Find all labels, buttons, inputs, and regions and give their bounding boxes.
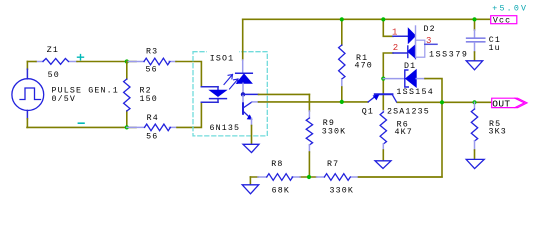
svg-text:D1: D1	[404, 62, 416, 71]
svg-text:+5.0V: +5.0V	[492, 4, 528, 13]
svg-text:6N135: 6N135	[210, 124, 241, 133]
wire D1 right down to OUT net	[359, 79, 443, 177]
node D1 left junction	[381, 77, 385, 81]
node junction R9 bottom	[307, 175, 311, 179]
wire bottom-left net	[27, 126, 136, 128]
node + marker	[78, 55, 84, 60]
ground below C1	[466, 61, 483, 70]
bottom net wire	[250, 176, 442, 178]
node junction A top	[125, 59, 129, 63]
resistor R9	[306, 94, 346, 177]
svg-text:470: 470	[355, 61, 373, 70]
resistor R1	[339, 19, 373, 102]
node C1 top	[472, 17, 476, 21]
resistor R6	[380, 111, 413, 161]
svg-text:2: 2	[393, 43, 398, 53]
svg-text:330K: 330K	[322, 127, 347, 136]
resistor R8	[258, 160, 300, 196]
svg-text:3K3: 3K3	[489, 128, 507, 137]
svg-text:R7: R7	[327, 160, 339, 169]
svg-text:50: 50	[48, 71, 60, 80]
wire D2 pin1 drop	[383, 19, 393, 36]
svg-text:1SS154: 1SS154	[396, 88, 434, 97]
photodiode inside ISO1	[236, 19, 253, 93]
resistor R5	[471, 102, 507, 159]
svg-text:R8: R8	[271, 160, 283, 169]
diode D2 (1SS379 pair)	[408, 25, 469, 59]
node junction A bottom	[125, 125, 129, 129]
OUT port connector	[492, 98, 527, 109]
node R1 bottom junction	[340, 100, 344, 104]
transistor Q1 (2SA1235 PNP)	[362, 94, 430, 116]
wire phototransistor emitter to ground	[251, 118, 253, 125]
node R1 top	[340, 17, 344, 21]
wire top-left net	[77, 61, 136, 63]
svg-text:4K7: 4K7	[395, 128, 413, 137]
pulse generator V1 circle	[12, 79, 44, 111]
optocoupler ISO1 dashed box	[193, 52, 267, 136]
ground below R5	[466, 159, 484, 168]
svg-text:150: 150	[140, 95, 158, 104]
node photodiode junction	[241, 92, 245, 96]
node D2 top	[381, 17, 385, 21]
svg-text:Vcc: Vcc	[493, 17, 511, 26]
wire D2 pin2 and Q1 base vertical	[383, 53, 393, 111]
wire R3 to ISO1	[176, 62, 201, 87]
svg-text:1u: 1u	[489, 44, 501, 53]
svg-text:OUT: OUT	[492, 98, 510, 109]
svg-text:0/5V: 0/5V	[52, 94, 77, 104]
wire pulse gen top stub	[26, 62, 28, 70]
wire lower output of ISO1 (collector) to Q1 emitter	[252, 101, 259, 103]
top power rail	[243, 18, 491, 20]
resistor Z1	[27, 46, 119, 104]
resistor R2	[124, 62, 158, 128]
LED inside ISO1	[201, 87, 226, 103]
diode D1	[383, 62, 434, 97]
svg-text:3: 3	[426, 36, 431, 46]
node OUT junction D1	[440, 100, 444, 104]
LED light arrows	[224, 75, 238, 90]
ground below R8	[242, 185, 259, 194]
node OUT junction R5	[472, 100, 476, 104]
node - marker	[78, 122, 84, 124]
wire Q1 collector to OUT	[398, 101, 492, 103]
svg-text:2SA1235: 2SA1235	[387, 108, 430, 117]
svg-text:Q1: Q1	[362, 108, 374, 117]
svg-text:1: 1	[392, 28, 397, 38]
resistor R4	[127, 114, 177, 142]
svg-text:1SS379: 1SS379	[429, 50, 468, 59]
wire R8 left to ground	[249, 177, 251, 185]
svg-text:56: 56	[146, 133, 158, 142]
svg-text:R4: R4	[147, 114, 159, 123]
resistor R3	[127, 48, 176, 75]
svg-text:56: 56	[146, 65, 158, 74]
svg-text:330K: 330K	[330, 187, 355, 196]
svg-text:ISO1: ISO1	[210, 55, 235, 64]
wire upper output of ISO1 (base node)	[243, 93, 259, 95]
Vcc power symbol	[491, 16, 517, 26]
phototransistor inside ISO1	[243, 94, 252, 119]
capacitor C1	[467, 19, 501, 61]
ground below ISO1 emitter	[243, 144, 259, 152]
resistor R7	[317, 160, 359, 195]
ground below R6	[375, 161, 391, 169]
svg-text:R3: R3	[146, 48, 158, 57]
wire R4 to ISO1	[177, 102, 201, 127]
ISO1 label	[207, 50, 239, 64]
wire pulse gen bottom stub	[26, 110, 28, 118]
svg-text:68K: 68K	[272, 187, 290, 196]
svg-text:D2: D2	[424, 25, 436, 34]
svg-text:Z1: Z1	[47, 46, 59, 55]
